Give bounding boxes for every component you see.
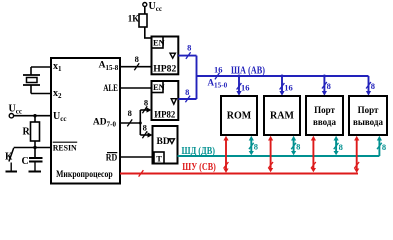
arrowhead output port address xyxy=(366,91,371,96)
slash on ROM drop xyxy=(237,83,242,90)
svg-text:A15-8: A15-8 xyxy=(99,61,119,72)
ROM box xyxy=(221,96,257,135)
slash on lower branch xyxy=(142,131,147,138)
wire 1K to EN of HP82 xyxy=(144,37,152,39)
output port box xyxy=(349,96,387,135)
svg-text:8: 8 xyxy=(254,141,258,151)
wire AD7-0 xyxy=(120,122,140,124)
wire drop to input port xyxy=(323,76,325,92)
red control bus net xyxy=(120,139,358,174)
wire output port data xyxy=(378,139,380,156)
slash on input port data xyxy=(334,143,339,149)
svg-text:BD: BD xyxy=(157,137,170,147)
microprocessor U1 box xyxy=(51,58,120,184)
svg-text:Порт: Порт xyxy=(314,105,335,115)
arrowhead RAM data up xyxy=(291,136,296,141)
teal data bus net xyxy=(178,139,380,156)
svg-text:Микропроцесор: Микропроцесор xyxy=(56,170,113,180)
arrowhead RAM control up xyxy=(268,136,273,141)
blue address net xyxy=(178,56,368,99)
svg-text:ИР82: ИР82 xyxy=(154,110,175,120)
wire x1 xyxy=(31,66,51,68)
arrowhead RAM address xyxy=(279,91,284,96)
arrowhead output port data up xyxy=(377,136,382,141)
wire blue vertical join xyxy=(196,56,198,99)
svg-text:ША (АВ): ША (АВ) xyxy=(231,65,265,76)
wire Ucc xyxy=(14,115,51,117)
U3 EN box xyxy=(152,81,164,93)
svg-text:R: R xyxy=(23,127,31,138)
bus ША horizontal xyxy=(197,75,369,77)
slash on RAM drop xyxy=(280,83,285,90)
svg-text:RAM: RAM xyxy=(270,111,294,122)
wire input port data xyxy=(335,139,337,153)
svg-text:x1: x1 xyxy=(53,61,62,73)
node fork AD xyxy=(139,122,142,125)
arrowhead input port data up xyxy=(334,136,339,141)
svg-text:8: 8 xyxy=(135,54,139,64)
RD overline xyxy=(107,152,117,154)
svg-text:EN: EN xyxy=(153,38,166,48)
svg-text:8: 8 xyxy=(382,142,386,152)
slash on input port control xyxy=(311,162,316,168)
arrowhead ROM control up xyxy=(223,136,228,141)
slash on output port data xyxy=(377,143,382,149)
svg-text:1К: 1К xyxy=(128,14,140,24)
svg-text:16: 16 xyxy=(284,82,293,92)
RAM box xyxy=(264,96,300,135)
svg-text:HP82: HP82 xyxy=(153,65,176,75)
arrowhead ROM data up xyxy=(249,136,254,141)
slash on bus ШУ xyxy=(139,170,144,176)
node junction C top xyxy=(33,146,36,149)
wire ALE xyxy=(120,87,152,89)
wire U2 output xyxy=(178,55,196,57)
node junction bus-ROM xyxy=(238,75,241,78)
resistor 1K xyxy=(139,7,147,39)
svg-text:К: К xyxy=(5,152,13,163)
RESIN overline xyxy=(53,141,77,143)
node junction bus-RAM xyxy=(281,75,284,78)
svg-text:Ucc: Ucc xyxy=(149,1,162,13)
svg-text:ШД (ДВ): ШД (ДВ) xyxy=(182,146,216,157)
node junction R top xyxy=(33,114,36,117)
slash on upper branch xyxy=(142,106,147,113)
wire A15-8 xyxy=(120,66,152,68)
wire fork upper branch to U3 xyxy=(140,109,147,111)
svg-text:RESIN: RESIN xyxy=(53,143,78,153)
slash on ROM control xyxy=(224,162,229,168)
svg-text:С: С xyxy=(22,156,29,167)
arrowhead output port control up xyxy=(354,136,359,141)
slash on RAM data xyxy=(291,143,296,149)
arrowhead input port control up xyxy=(311,136,316,141)
U4 BD triangle xyxy=(169,139,174,144)
latch U3 ИР82 #2 box xyxy=(152,81,179,120)
svg-text:8: 8 xyxy=(296,141,300,151)
svg-text:8: 8 xyxy=(144,97,148,107)
arrowhead ROM data down xyxy=(249,151,254,155)
slash on input port drop xyxy=(322,82,327,89)
svg-text:EN: EN xyxy=(153,82,166,92)
U2 EN box xyxy=(152,37,164,49)
U3 output triangle xyxy=(171,99,176,105)
slash on bus at 16 xyxy=(215,73,220,80)
input port box xyxy=(306,96,343,135)
arrowhead ROM control down xyxy=(223,169,228,173)
svg-text:8: 8 xyxy=(371,81,375,91)
Ucc supply terminal top xyxy=(143,3,147,7)
wire fork vertical xyxy=(139,110,141,135)
wire drop to output port xyxy=(368,76,370,92)
wire x2 xyxy=(31,93,51,95)
svg-text:8: 8 xyxy=(185,87,189,97)
wire fork lower branch to BD xyxy=(140,134,148,136)
svg-text:16: 16 xyxy=(241,82,250,92)
latch U2 HP82 #1 box xyxy=(152,37,179,75)
svg-text:ROM: ROM xyxy=(227,111,252,122)
slash on U2 output xyxy=(186,52,191,59)
svg-text:RD: RD xyxy=(106,154,118,164)
bus ШД horizontal xyxy=(178,155,380,157)
wire RAM data xyxy=(293,139,295,153)
svg-text:Ucc: Ucc xyxy=(53,111,66,123)
svg-text:ШУ (СВ): ШУ (СВ) xyxy=(182,162,216,173)
svg-text:Т: Т xyxy=(156,154,162,164)
svg-text:8: 8 xyxy=(187,43,191,53)
arrowhead input port data down xyxy=(334,151,339,155)
svg-text:ALE: ALE xyxy=(103,84,118,94)
node junction bus-input-port xyxy=(323,75,326,78)
ground for K xyxy=(6,163,18,172)
svg-text:8: 8 xyxy=(327,81,331,91)
slash on output port control xyxy=(354,162,359,168)
arrowhead input port address xyxy=(322,91,327,96)
capacitor C xyxy=(29,148,43,162)
arrowhead ROM address xyxy=(236,91,241,96)
wire drop to ROM xyxy=(238,76,240,92)
svg-text:16: 16 xyxy=(214,64,223,74)
svg-text:8: 8 xyxy=(339,142,343,152)
slash on output port drop xyxy=(366,82,371,89)
resistor R xyxy=(31,116,40,148)
wire ROM data xyxy=(250,139,252,153)
slash on AD7-0 wire xyxy=(127,119,132,126)
wire RAM control xyxy=(270,139,272,170)
slash on A15-8 wire xyxy=(134,63,139,70)
wire drop to RAM xyxy=(281,76,283,92)
bus ШУ horizontal xyxy=(120,173,358,175)
slash on RAM control xyxy=(268,162,273,168)
wire output port control xyxy=(356,139,358,170)
U2 output triangle xyxy=(170,53,175,58)
arrowhead input port control down xyxy=(311,168,316,172)
switch K xyxy=(9,148,14,162)
arrowhead output port control down xyxy=(354,169,359,173)
svg-text:Порт: Порт xyxy=(358,105,379,115)
svg-text:x2: x2 xyxy=(53,88,62,100)
svg-text:AD7-0: AD7-0 xyxy=(93,117,117,128)
crystal ZQ1 xyxy=(23,67,40,94)
wire RESIN xyxy=(14,147,51,149)
svg-text:ввода: ввода xyxy=(313,117,336,127)
slash on U3 output xyxy=(185,96,190,103)
wire ROM control xyxy=(225,139,227,170)
svg-text:8: 8 xyxy=(128,108,132,118)
arrowhead RAM data down xyxy=(291,151,296,155)
svg-text:8: 8 xyxy=(143,122,147,132)
wire U3 output xyxy=(178,98,196,100)
wire RD xyxy=(120,156,154,158)
svg-text:вывода: вывода xyxy=(353,117,383,127)
buffer U4 BD box xyxy=(153,126,178,164)
wire input port control xyxy=(312,139,314,170)
U4 T box xyxy=(154,152,164,164)
ground for C xyxy=(29,162,42,172)
svg-text:A15-0: A15-0 xyxy=(208,77,228,89)
arrowhead RAM control down xyxy=(268,168,273,172)
slash on ROM data xyxy=(249,143,254,149)
